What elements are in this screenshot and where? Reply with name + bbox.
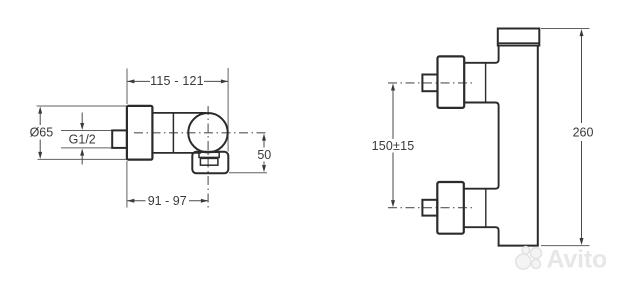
body top line — [152, 112, 206, 114]
G1/2 pipe stub — [112, 130, 127, 148]
dimension 50 line+arrows — [263, 141, 265, 166]
bottom pipe stub — [422, 200, 437, 216]
svg-text:Avito: Avito — [547, 246, 608, 274]
svg-text:50: 50 — [257, 148, 271, 162]
aerator lower ring — [200, 158, 218, 165]
extension line stub bottom (for G1/2) — [61, 147, 113, 149]
top arm bottom edge / body left edge mid segment / bottom arm top edge — [464, 103, 499, 189]
logo bubble top-right — [530, 248, 541, 259]
body bottom edge — [498, 245, 539, 247]
body step line — [172, 113, 174, 153]
top pipe stub — [422, 75, 437, 92]
dimension Ø65 line+arrows — [39, 113, 41, 153]
logo bubble big — [516, 254, 531, 269]
top flange — [438, 56, 465, 108]
dimension 91-97 line+arrows — [127, 200, 208, 202]
top arm centerline — [388, 82, 475, 84]
body cap (top) — [498, 29, 540, 46]
svg-text:115 - 121: 115 - 121 — [150, 74, 204, 88]
wall flange (side view) — [127, 106, 152, 160]
dimension 91-97: left extension line — [126, 161, 128, 208]
extension line stub top (for G1/2) — [61, 130, 113, 132]
svg-text:Ø65: Ø65 — [30, 125, 54, 139]
extension line flange bottom (for Ø65) — [38, 158, 127, 160]
dimension G1/2 arrows — [81, 113, 83, 124]
dimension 50: extension line bottom — [229, 172, 267, 174]
dimension 115-121: right extension line — [227, 68, 229, 152]
svg-text:91 - 97: 91 - 97 — [148, 194, 187, 208]
bottom flange — [437, 182, 464, 234]
logo bubble small top-left — [522, 247, 530, 255]
bottom arm centerline — [388, 207, 475, 209]
logo bubble bottom-right — [532, 260, 541, 269]
dimension 260: bottom extension line — [541, 245, 590, 247]
svg-text:G1/2: G1/2 — [69, 133, 96, 147]
control knob circle — [188, 113, 227, 152]
dimension 115-121 line+arrows — [127, 80, 228, 82]
dimension 150±15 line+arrows — [392, 90, 394, 201]
cap inner line — [499, 42, 540, 44]
horizontal centerline — [134, 132, 267, 134]
body right edge — [537, 45, 539, 246]
dimension 260 line+arrows — [581, 36, 583, 239]
dimension 115-121: left extension line — [126, 69, 128, 105]
vertical centerline — [207, 106, 209, 208]
top arm junction line — [485, 63, 487, 103]
bottom arm bottom edge with fillet into body bottom — [464, 227, 499, 245]
body left edge top segment with fillet into top arm — [464, 46, 499, 63]
body bottom line — [152, 152, 201, 154]
svg-text:150±15: 150±15 — [372, 139, 415, 153]
outlet body — [192, 152, 228, 174]
extension line flange top (for Ø65) — [37, 105, 127, 107]
svg-text:260: 260 — [573, 125, 594, 139]
bottom arm junction line — [485, 189, 487, 228]
aerator upper ring — [199, 152, 219, 157]
dimension 260: top extension line — [541, 28, 590, 30]
